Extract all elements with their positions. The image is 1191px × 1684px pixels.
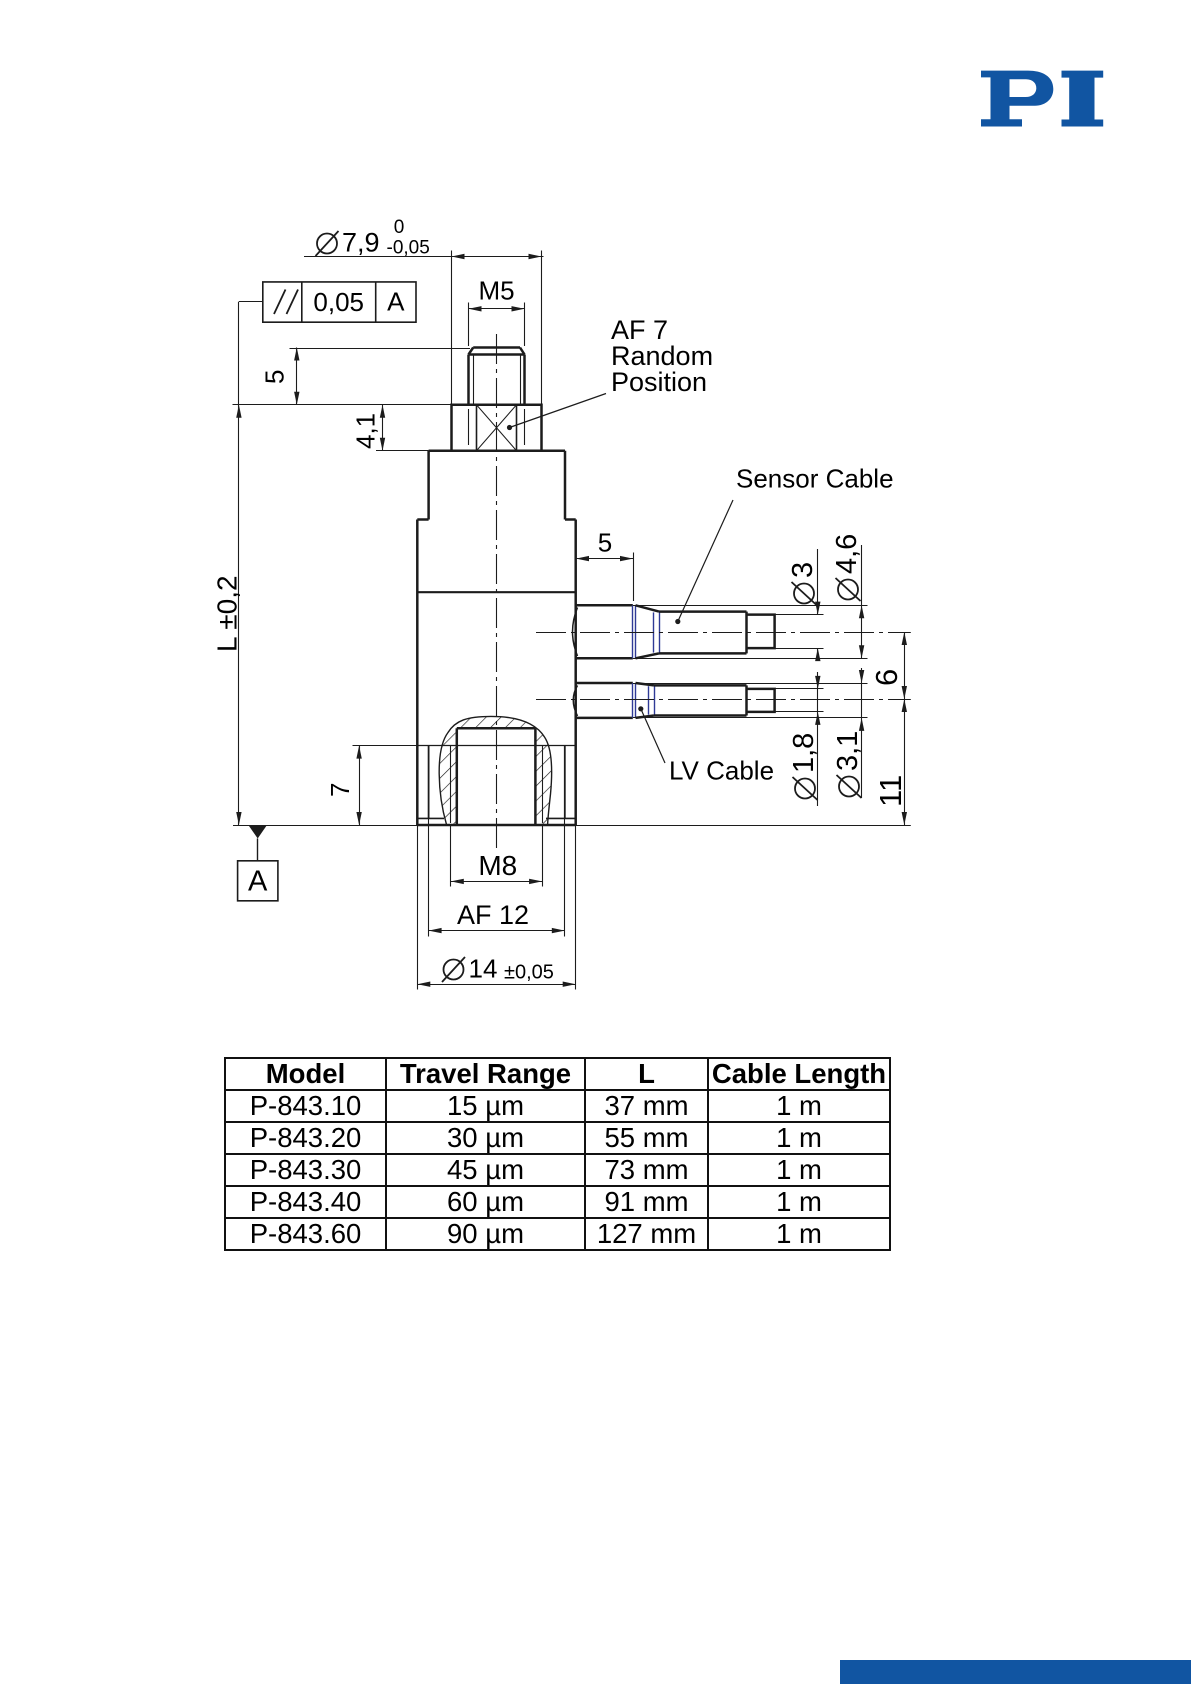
svg-text:AF 12: AF 12 — [457, 900, 529, 930]
svg-text:3: 3 — [787, 562, 819, 578]
svg-text:Position: Position — [611, 367, 707, 397]
svg-text:7: 7 — [325, 783, 355, 797]
svg-text:5: 5 — [260, 370, 290, 384]
svg-text:0,05: 0,05 — [313, 287, 364, 317]
svg-text:4,1: 4,1 — [351, 413, 381, 449]
svg-text:4,6: 4,6 — [831, 534, 863, 574]
svg-text:1,8: 1,8 — [788, 733, 820, 773]
svg-text:11: 11 — [873, 775, 908, 807]
svg-text:M8: M8 — [478, 850, 517, 881]
svg-text:-0,05: -0,05 — [387, 238, 430, 259]
svg-text:A: A — [387, 287, 405, 317]
svg-text:7,9: 7,9 — [342, 228, 380, 258]
svg-text:±0,05: ±0,05 — [504, 962, 554, 984]
svg-text:6: 6 — [869, 669, 904, 686]
svg-text:14: 14 — [469, 954, 498, 984]
svg-text:Sensor Cable: Sensor Cable — [736, 464, 894, 494]
svg-text:A: A — [248, 866, 268, 898]
svg-text:L ±0,2: L ±0,2 — [212, 575, 243, 652]
svg-text:3,1: 3,1 — [832, 731, 864, 771]
svg-text:0: 0 — [394, 217, 405, 238]
svg-text:M5: M5 — [478, 276, 514, 306]
svg-text:5: 5 — [598, 528, 612, 558]
svg-text:LV Cable: LV Cable — [669, 756, 774, 786]
